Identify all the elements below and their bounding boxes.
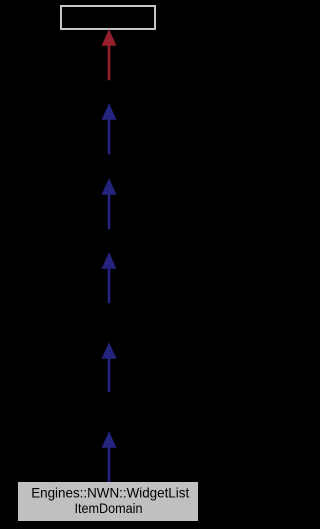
node: base class box (gray border, black fill): [61, 6, 155, 29]
node: current class box Engines::NWN::WidgetListItemDomain: [18, 482, 198, 521]
arrow: private inheritance (dark red): [102, 29, 117, 80]
arrow: public inheritance 5 (dark blue): [102, 431, 117, 483]
arrow: public inheritance 3 (dark blue): [102, 252, 117, 303]
arrow: public inheritance 4 (dark blue): [102, 342, 117, 392]
arrow: public inheritance 2 (dark blue): [102, 178, 117, 229]
svg-text:ItemDomain: ItemDomain: [75, 500, 143, 516]
arrow: public inheritance 1 (dark blue): [102, 103, 117, 154]
svg-text:Engines::NWN::WidgetList: Engines::NWN::WidgetList: [31, 485, 189, 501]
